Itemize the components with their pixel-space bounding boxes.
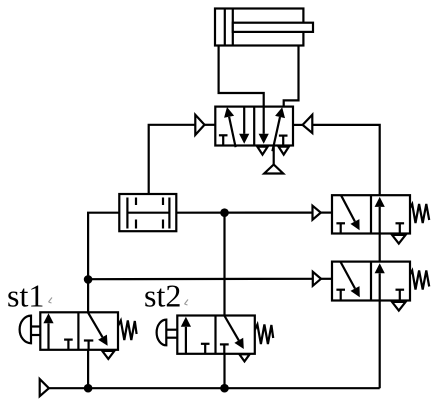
valve st1 right box blocked port T <box>84 339 93 341</box>
valve V2 right box arrow up <box>379 207 381 234</box>
valve st1 right box arrow diagonal <box>88 312 103 337</box>
wire valve V2 to valve V3 <box>379 234 381 262</box>
valve V1 supply line port 1 <box>273 146 275 165</box>
valve V1 5/2 body <box>215 107 293 146</box>
valve V1 left box arrow down <box>243 107 245 134</box>
valve V1 right box arrow down <box>263 107 265 134</box>
valve V2 left box blocked port T <box>336 222 345 224</box>
valve V3 right box blocked port T <box>396 289 405 291</box>
node junction left <box>84 275 93 284</box>
cylinder A1 piston <box>224 9 226 46</box>
svg-text:st2: st2 <box>144 278 181 314</box>
valve st1 left box blocked port T <box>64 339 73 341</box>
wire st2 down to rail <box>223 354 225 388</box>
stray mark after st1 <box>49 298 53 304</box>
wire element Z1 right port to valve V2 pilot <box>176 212 312 214</box>
svg-text:st1: st1 <box>7 278 44 314</box>
valve V2 exhaust triangle <box>392 235 406 244</box>
pressure source bottom left <box>40 379 49 396</box>
valve V1 right box blocked port T <box>279 135 288 137</box>
node rail-st2 junction <box>220 384 229 393</box>
valve st1 3/2 body <box>40 312 118 350</box>
valve V3 pilot <box>313 272 321 286</box>
wire right pilot line <box>312 125 379 195</box>
valve st2 right box arrow diagonal <box>224 316 239 341</box>
valve st2 left box blocked port T <box>201 343 210 345</box>
valve V2 right box blocked port T <box>396 222 405 224</box>
cylinder A1 piston rod <box>233 23 313 32</box>
valve V2 pilot <box>313 206 321 220</box>
valve V2 left box arrow diagonal <box>341 195 355 221</box>
wire left pilot line <box>149 125 196 194</box>
valve V2 3/2 body <box>332 195 410 233</box>
wire st1 down to rail <box>87 350 89 388</box>
node junction right of Z1 <box>220 208 229 217</box>
double-piston element Z1 body <box>119 194 176 231</box>
valve V1 left pilot <box>195 115 204 135</box>
valve V1 right box arrow up diagonal <box>272 117 280 151</box>
valve V3 exhaust triangle <box>392 302 406 311</box>
cylinder A1 body <box>215 9 303 46</box>
valve st2 exhaust triangle <box>239 354 249 361</box>
valve st2 push button <box>157 320 167 346</box>
wire element Z1 left port down to st1 <box>88 213 119 313</box>
element Z1 piston rod <box>127 212 169 214</box>
valve V3 left box arrow diagonal <box>340 262 355 289</box>
valve V1 exhaust triangle port 5 <box>257 147 267 155</box>
valve V1 left box blocked port T <box>219 134 228 136</box>
valve V1 exhaust triangle port 3 <box>279 147 289 155</box>
stray mark after st2 <box>185 300 189 306</box>
valve st1 left box arrow up <box>47 323 49 350</box>
valve st1 exhaust triangle <box>102 351 114 359</box>
wire supply rail <box>49 387 380 389</box>
valve st1 return spring <box>118 321 137 341</box>
valve V3 3/2 body <box>332 262 410 301</box>
wire node down through st2 <box>223 213 225 316</box>
wire cylinder right port to valve port 2 <box>284 46 299 108</box>
valve V1 left box arrow up <box>229 117 236 147</box>
element Z1 right piston <box>168 198 170 229</box>
pressure source under valve V1 <box>264 165 283 174</box>
wire to valve V3 pilot <box>88 278 313 281</box>
wire valve V3 down to supply rail <box>379 301 381 389</box>
node rail-st1 junction <box>84 384 93 393</box>
valve V1 right pilot <box>303 115 313 133</box>
valve V2 return spring <box>410 204 429 223</box>
element Z1 left piston <box>126 198 128 229</box>
valve st2 left box arrow up <box>185 327 187 354</box>
valve V3 left box blocked port T <box>336 289 345 291</box>
valve st2 right box blocked port T <box>220 343 229 345</box>
valve st2 3/2 body <box>177 316 255 354</box>
valve st2 return spring <box>255 325 273 345</box>
valve st1 push button <box>20 316 31 344</box>
valve V3 right box arrow up <box>379 273 381 300</box>
wire cylinder left port to valve port 4 <box>219 46 264 108</box>
valve V3 return spring <box>410 271 429 290</box>
